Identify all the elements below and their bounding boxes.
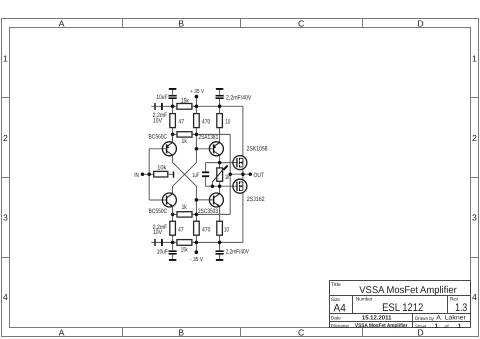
svg-text:BC560C: BC560C <box>149 134 168 141</box>
svg-text:470: 470 <box>202 227 211 234</box>
svg-text:4: 4 <box>472 292 477 302</box>
svg-text:4: 4 <box>3 292 8 302</box>
svg-text:Date: Date <box>331 316 341 322</box>
svg-text:2: 2 <box>472 133 477 143</box>
svg-text:Sheet: Sheet <box>415 324 427 330</box>
svg-text:1: 1 <box>458 323 462 330</box>
svg-text:1uF: 1uF <box>192 172 199 179</box>
svg-text:1: 1 <box>3 53 8 63</box>
svg-text:2SC3503: 2SC3503 <box>198 208 218 215</box>
svg-text:10: 10 <box>224 227 229 234</box>
svg-text:2SK1058: 2SK1058 <box>247 146 268 153</box>
svg-text:10V: 10V <box>153 117 163 124</box>
svg-text:2,2mF/40V: 2,2mF/40V <box>226 95 252 102</box>
svg-text:IN: IN <box>134 172 139 179</box>
svg-text:Drawn by: Drawn by <box>415 316 434 322</box>
svg-text:VSSA MosFet Amplifier: VSSA MosFet Amplifier <box>359 285 457 296</box>
svg-text:- 35 V: - 35 V <box>190 257 203 263</box>
svg-text:+ 35 V: + 35 V <box>190 89 204 95</box>
svg-text:ESL 1212: ESL 1212 <box>382 302 423 314</box>
svg-text:A4: A4 <box>334 303 346 315</box>
svg-text:Filename: Filename <box>331 324 349 330</box>
svg-text:3: 3 <box>3 213 8 223</box>
svg-text:47: 47 <box>178 118 184 125</box>
svg-text:1: 1 <box>435 323 439 330</box>
svg-text:of: of <box>445 324 450 330</box>
svg-text:D: D <box>417 18 423 28</box>
svg-text:10uF: 10uF <box>156 94 167 101</box>
svg-text:BC550C: BC550C <box>149 208 168 215</box>
svg-text:OUT: OUT <box>254 172 265 179</box>
svg-text:C: C <box>298 18 304 28</box>
svg-text:B: B <box>178 18 184 28</box>
svg-text:1.3: 1.3 <box>455 302 467 314</box>
svg-text:10k: 10k <box>157 164 167 171</box>
svg-text:1k: 1k <box>225 174 230 181</box>
svg-text:A. Lakner: A. Lakner <box>436 315 466 322</box>
svg-text:2SJ162: 2SJ162 <box>247 196 265 203</box>
svg-text:10V: 10V <box>153 229 163 236</box>
svg-text:VSSA MosFet Amplifier: VSSA MosFet Amplifier <box>355 323 408 329</box>
svg-text:2,2mF/40V: 2,2mF/40V <box>226 248 250 255</box>
svg-text:Number: Number <box>356 297 373 303</box>
svg-text:A: A <box>59 18 65 28</box>
svg-text:3: 3 <box>472 213 477 223</box>
svg-text:47: 47 <box>178 227 184 234</box>
svg-text:10uF: 10uF <box>157 248 168 255</box>
svg-text:15k: 15k <box>181 97 190 104</box>
svg-text:B: B <box>178 327 184 337</box>
svg-text:C: C <box>298 327 304 337</box>
svg-text:2: 2 <box>3 133 8 143</box>
svg-text:Title: Title <box>331 282 341 288</box>
svg-text:1: 1 <box>472 53 477 63</box>
svg-text:1k: 1k <box>182 204 188 211</box>
svg-text:A: A <box>59 327 65 337</box>
svg-text:470: 470 <box>202 118 211 125</box>
svg-text:1k: 1k <box>182 138 188 145</box>
svg-text:15.12.2011: 15.12.2011 <box>362 315 392 322</box>
svg-text:2SA1381: 2SA1381 <box>198 134 218 141</box>
svg-text:15k: 15k <box>181 247 188 254</box>
svg-text:10: 10 <box>225 118 230 125</box>
